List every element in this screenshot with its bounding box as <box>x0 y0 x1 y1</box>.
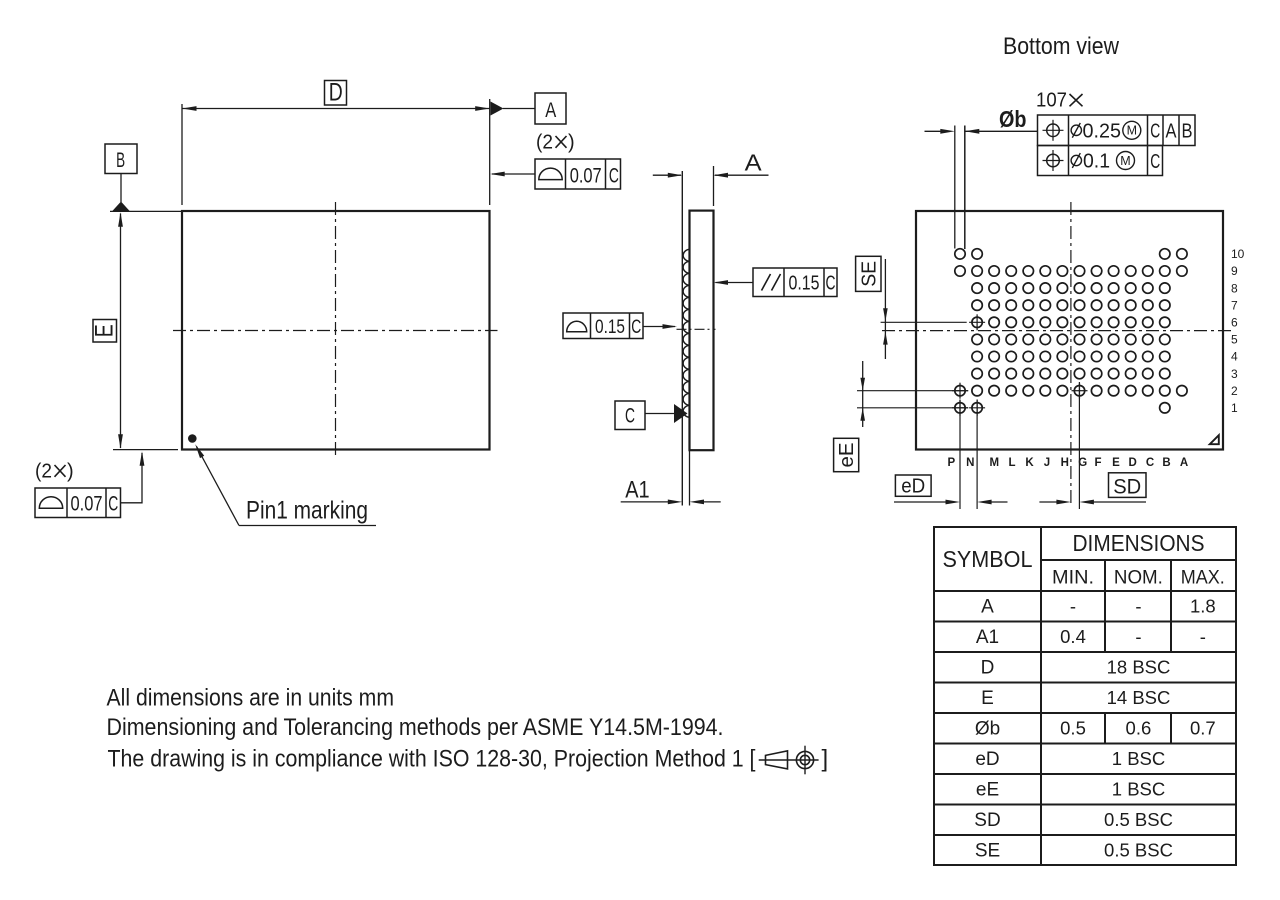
dimension eD: dimension line with arrows <box>894 501 948 503</box>
svg-text:MIN.: MIN. <box>1052 568 1094 589</box>
svg-text:SE: SE <box>858 261 880 287</box>
svg-text:3: 3 <box>1231 367 1238 381</box>
svg-text:C: C <box>631 316 641 338</box>
svg-text:B: B <box>1182 121 1193 143</box>
ball row 4: N..B <box>972 351 982 361</box>
svg-text:C: C <box>1146 457 1154 469</box>
svg-text:eD: eD <box>975 749 999 770</box>
svg-text:2: 2 <box>1231 384 1238 398</box>
svg-text:1 BSC: 1 BSC <box>1112 748 1165 769</box>
datum C: boxed letter C, leader and filled triangle <box>615 401 645 430</box>
leader arrow from FCF 0.07 to right edge extension <box>492 173 535 175</box>
dimension SD: dimension line with arrows <box>1039 501 1059 503</box>
body left edge extension below <box>689 450 691 505</box>
svg-text:1 BSC: 1 BSC <box>1112 779 1165 800</box>
svg-text:D: D <box>1128 457 1136 469</box>
svg-text:0.1: 0.1 <box>1083 151 1110 173</box>
dimension SD: boxed label <box>1109 473 1147 498</box>
bottom edge extension line (left) <box>113 449 178 451</box>
dimension SD: extension line from target ball G2 down <box>1078 382 1080 509</box>
svg-text:SD: SD <box>974 810 1000 831</box>
svg-text:]: ] <box>822 745 829 772</box>
svg-text:0.7: 0.7 <box>1190 718 1216 739</box>
svg-text:DIMENSIONS: DIMENSIONS <box>1073 530 1205 556</box>
svg-text:M: M <box>990 457 1000 469</box>
dimension eE: boxed label (rotated) <box>834 438 859 471</box>
position FCF row 1: ⌖ ø0.25 (M) C A B <box>1038 115 1196 146</box>
body right edge extension above <box>713 166 715 206</box>
dimension Øb: tangent extension lines from ball P10 <box>954 126 956 249</box>
svg-text:A1: A1 <box>625 477 649 504</box>
top view vertical centerline <box>335 202 337 459</box>
dimension SE: dimension line with arrows <box>884 259 886 359</box>
profile-of-surface FCF 0.07 C (bottom left) <box>35 488 121 518</box>
dimension D: boxed label D <box>325 81 347 106</box>
side view body outline <box>690 211 714 451</box>
top edge extension line (left) <box>110 210 181 212</box>
svg-text:K: K <box>1025 457 1034 469</box>
dimension SE: boxed label (rotated) <box>856 256 881 291</box>
svg-text:E: E <box>981 688 994 709</box>
top view horizontal centerline <box>173 330 498 332</box>
svg-text:(2: (2 <box>536 132 553 154</box>
dimensions table frame <box>934 527 1236 865</box>
ball row 8: N..B <box>972 283 982 293</box>
svg-text:C: C <box>108 493 118 516</box>
svg-text:9: 9 <box>1231 264 1238 278</box>
svg-text:0.15: 0.15 <box>789 272 820 295</box>
svg-text:eE: eE <box>836 443 858 468</box>
dimension E: boxed label E (rotated) <box>93 320 117 343</box>
svg-text:P: P <box>947 457 955 469</box>
datum B: boxed letter B, leader and filled triangle <box>105 144 137 174</box>
svg-text:B: B <box>1162 457 1170 469</box>
svg-text:eE: eE <box>976 780 999 801</box>
svg-text:(2: (2 <box>35 461 52 483</box>
svg-text:D: D <box>981 658 995 679</box>
svg-text:14 BSC: 14 BSC <box>1107 687 1171 708</box>
position FCF row 2: ⌖ ø0.1 (M) C <box>1038 146 1163 176</box>
svg-text:0.25: 0.25 <box>1083 120 1122 142</box>
svg-text:C: C <box>625 404 635 428</box>
svg-text:A: A <box>1180 457 1188 469</box>
dimension Øb: dimension line with arrows <box>925 130 944 132</box>
svg-text:A: A <box>545 98 557 122</box>
projection method symbol: frustum and crosshair circles <box>759 759 819 761</box>
svg-text:eD: eD <box>901 476 925 498</box>
svg-text:A: A <box>1166 121 1178 143</box>
ball row 9: full row P..A <box>955 266 965 276</box>
svg-text:All dimensions are in units mm: All dimensions are in units mm <box>107 685 395 712</box>
svg-text:SYMBOL: SYMBOL <box>943 546 1033 572</box>
seating plane line through ball tips <box>681 171 683 506</box>
svg-text:D: D <box>329 78 343 106</box>
svg-text:0.5 BSC: 0.5 BSC <box>1104 809 1173 830</box>
svg-text:A1: A1 <box>976 627 999 648</box>
svg-text:A: A <box>745 150 762 176</box>
svg-text:Dimensioning and Tolerancing m: Dimensioning and Tolerancing methods per… <box>107 714 724 741</box>
ball row 10: P10 N10 B10 A10 <box>955 249 965 259</box>
svg-text:E: E <box>1112 457 1120 469</box>
svg-text:H: H <box>1061 457 1069 469</box>
svg-text:0.07: 0.07 <box>570 163 602 187</box>
svg-text:0.4: 0.4 <box>1060 626 1086 647</box>
ball row 5: N..B <box>972 334 982 344</box>
svg-text:5: 5 <box>1231 333 1238 347</box>
svg-text:M: M <box>1127 124 1137 138</box>
svg-text:C: C <box>826 272 836 295</box>
ball row 7: N..B <box>972 300 982 310</box>
dimension SE: extension line from target ball N6 <box>881 321 967 323</box>
svg-text:4: 4 <box>1231 350 1238 364</box>
svg-text:C: C <box>1150 121 1160 143</box>
svg-text:18 BSC: 18 BSC <box>1107 657 1171 678</box>
svg-text:): ) <box>67 461 74 483</box>
svg-text:0.07: 0.07 <box>71 492 103 516</box>
svg-text:1: 1 <box>1231 401 1238 415</box>
top view package outline <box>182 211 490 450</box>
bottom view package outline <box>916 211 1223 450</box>
svg-text:Bottom view: Bottom view <box>1003 33 1120 60</box>
leader arrow from parallelism FCF to body right edge <box>716 282 754 284</box>
svg-text:0.15: 0.15 <box>595 316 625 338</box>
profile-of-surface FCF 0.07 C (top right) <box>535 159 621 189</box>
svg-text:B: B <box>116 148 125 172</box>
svg-text:0.5 BSC: 0.5 BSC <box>1104 839 1173 860</box>
svg-text:N: N <box>966 457 974 469</box>
dimension D: dimension line with arrows <box>182 108 490 110</box>
svg-text:-: - <box>1070 596 1076 617</box>
svg-text:SE: SE <box>975 840 1000 861</box>
ball row 3: N..B <box>972 368 982 378</box>
svg-text:107: 107 <box>1036 90 1067 112</box>
svg-text:J: J <box>1044 457 1050 469</box>
ball row 6: N6 target ball + M..B <box>972 317 982 327</box>
svg-text:E: E <box>91 324 119 337</box>
ball row 1: P1 target, N1 target, B1 <box>955 403 965 413</box>
svg-text:Øb: Øb <box>975 719 1000 740</box>
svg-text:10: 10 <box>1231 247 1245 261</box>
side view solder balls (14 arcs) <box>683 249 690 417</box>
svg-text:-: - <box>1135 626 1141 647</box>
side view centerline <box>677 328 716 330</box>
svg-text:1.8: 1.8 <box>1190 596 1216 617</box>
dimension A: dimension line with arrows <box>653 174 681 176</box>
dimension eE: extension lines from balls P2 and P1 <box>857 390 968 392</box>
A1 corner index triangle <box>1210 435 1219 444</box>
datum A: filled triangle, leader and boxed letter A <box>491 102 504 116</box>
dimension eE: dimension line with arrows <box>862 361 864 427</box>
svg-text:-: - <box>1135 596 1141 617</box>
pin1 marking dot <box>188 434 197 443</box>
dimension eD: extension lines from balls P1 and N1 down <box>959 400 961 510</box>
parallelism FCF // 0.15 C <box>753 268 837 297</box>
svg-text:C: C <box>1150 151 1160 173</box>
pin1 leader line and arrow <box>197 447 240 526</box>
profile-of-surface FCF 0.15 C (side view) <box>563 313 643 339</box>
svg-text:Øb: Øb <box>999 106 1027 132</box>
svg-text:C: C <box>609 164 619 187</box>
svg-text:M: M <box>1120 154 1130 168</box>
svg-text:F: F <box>1094 457 1101 469</box>
bottom view horizontal centerline <box>882 330 1232 332</box>
svg-text:): ) <box>568 132 575 154</box>
svg-text:L: L <box>1008 457 1015 469</box>
dimension A1: dimension line with arrows <box>621 501 671 503</box>
dimension D: extension lines <box>181 104 183 205</box>
svg-text:MAX.: MAX. <box>1181 568 1225 589</box>
svg-text:0.6: 0.6 <box>1126 718 1152 739</box>
leader from bottom FCF up to bottom edge extension <box>121 453 143 503</box>
svg-text:Pin1 marking: Pin1 marking <box>246 497 368 525</box>
svg-text:-: - <box>1200 626 1206 647</box>
svg-text:A: A <box>981 597 994 618</box>
svg-text:0.5: 0.5 <box>1060 718 1086 739</box>
svg-text:6: 6 <box>1231 316 1238 330</box>
dimension E: dimension line with arrows <box>120 214 122 449</box>
svg-text:NOM.: NOM. <box>1114 568 1163 589</box>
dimension eD: boxed label <box>895 475 931 496</box>
svg-text:G: G <box>1078 457 1087 469</box>
svg-text:SD: SD <box>1113 476 1141 499</box>
leader arrow from profile FCF to seating plane <box>643 326 675 328</box>
svg-text:8: 8 <box>1231 281 1238 295</box>
ball row 2: P2 target, N..H, G2 target, F..B, A2 <box>955 386 965 396</box>
bottom view vertical centerline <box>1070 202 1072 506</box>
svg-text:7: 7 <box>1231 298 1238 312</box>
svg-text:The drawing is in compliance w: The drawing is in compliance with ISO 12… <box>108 745 756 772</box>
